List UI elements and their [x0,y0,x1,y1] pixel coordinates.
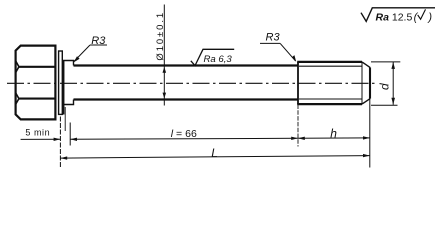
svg-text:R3: R3 [266,32,281,44]
diameter dimension line [163,5,165,106]
h dimension line [298,137,370,139]
hex head outline [16,46,56,120]
L dimension line [60,156,369,159]
svg-text:R3: R3 [91,35,106,47]
extension line bearing face [59,117,61,169]
neck upper edge [62,61,73,66]
svg-text:L: L [211,146,218,160]
undercut groove face [63,61,65,115]
extension line shank start [69,123,71,146]
thread section left edge [297,62,299,104]
arrowhead l right [291,137,298,140]
svg-text:h: h [330,126,337,140]
thread crest top line [297,61,362,63]
leader line R3 right [280,43,295,61]
svg-text:d: d [378,83,392,90]
arrowhead d top [391,62,395,69]
neck lower edge [62,100,73,105]
hex head flat line upper [19,66,56,68]
d dimension line [392,62,394,105]
hex head chamfer chevron upper [16,61,19,73]
l=66 dimension line [70,138,298,139]
d dimension extension bottom [371,104,398,106]
arrowhead l left [70,138,77,141]
thread end chamfer line [361,62,363,104]
arrowhead h left [298,137,305,140]
arrowhead diameter up [163,67,167,73]
thread end chamfer top diagonal [362,62,370,68]
surface finish mark Ra 6,3 [191,49,234,65]
svg-text:5 min: 5 min [25,127,50,137]
surface mark all-over top right [361,8,435,22]
centerline (bolt axis) [7,82,377,84]
leader shoulder R3 left [90,44,107,46]
leader shoulder R3 right [260,42,280,44]
arrowhead diameter down [163,93,167,99]
5 min dimension line [21,138,61,140]
extension line neck stub [64,107,66,131]
extension line bolt end [369,99,371,168]
shaft bottom line [74,98,299,100]
thread end chamfer bottom diagonal [362,99,370,104]
arrowhead R3 right leader [292,55,296,62]
hex head chamfer chevron lower [16,93,19,105]
d dimension extension top [371,61,400,63]
washer collar [59,51,63,114]
thread end face [369,67,371,98]
svg-text:Ra 6,3: Ra 6,3 [204,54,233,65]
thread root bottom thin line [299,98,363,100]
leader line R3 left [74,45,90,62]
small check in parentheses top right [418,9,426,19]
svg-text:l = 66: l = 66 [171,128,197,140]
extension line thread start [297,105,299,147]
arrowhead d bottom [391,98,395,105]
svg-text:Ø10±0.1: Ø10±0.1 [155,11,166,61]
thread crest bottom line [297,103,362,105]
svg-text:Ra 12.5: Ra 12.5 [376,12,413,24]
thread root top thin line [299,65,363,67]
arrowhead h right [363,136,370,139]
arrowhead L right [363,154,370,157]
arrowhead 5min right [54,138,61,141]
arrowhead L left [60,156,67,159]
arrowhead R3 left leader [74,56,80,62]
shaft top line [74,64,299,66]
hex head flat line lower [19,98,56,100]
